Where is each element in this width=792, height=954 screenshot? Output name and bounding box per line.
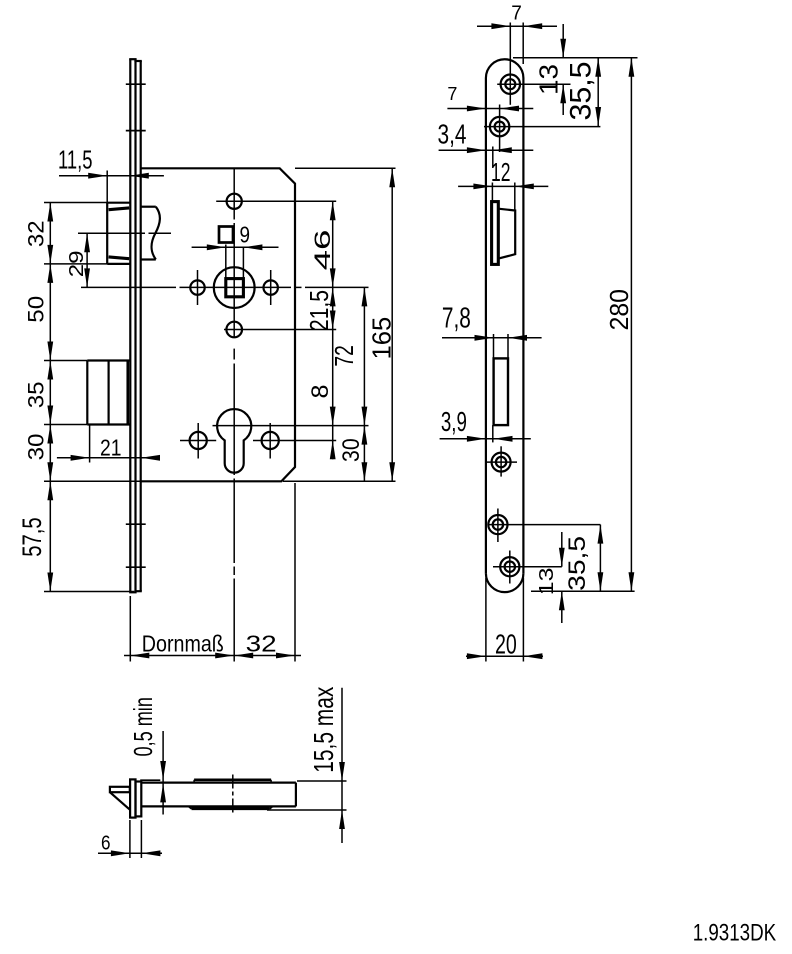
faceplate section rear layer bbox=[136, 782, 142, 817]
screw hole 1 outer bbox=[501, 75, 520, 94]
faceplate front plate top cap bbox=[129, 58, 136, 60]
case section bottom boss bbox=[192, 807, 270, 810]
case section reference lip bbox=[140, 779, 160, 781]
dimension 15,5 max line bbox=[341, 688, 343, 843]
screw hole tick on faceplate edge 2 bbox=[126, 130, 146, 132]
dimension 3,4 arrows bbox=[467, 147, 486, 153]
svg-text:165: 165 bbox=[366, 317, 396, 360]
dimension 35,5 bottom arrows bbox=[598, 525, 604, 544]
deadbolt front face thick line bbox=[126, 362, 129, 424]
extension line plate top right bbox=[513, 57, 638, 59]
dimension column 72/30 line bbox=[363, 287, 365, 481]
dimension 11,5 left arrow bbox=[88, 173, 107, 179]
extension line deadbolt window left upper bbox=[493, 334, 495, 358]
extension line case bottom left bbox=[44, 480, 141, 482]
follower side hole right bbox=[264, 280, 278, 294]
square symbol bbox=[219, 227, 233, 243]
svg-text:3,9: 3,9 bbox=[441, 406, 467, 437]
hole below follower bbox=[226, 322, 242, 338]
screw hole tick on faceplate edge 1 bbox=[126, 83, 146, 85]
dimension 7,8 arrows bbox=[475, 335, 494, 341]
dimension 11,5 line bbox=[59, 175, 164, 177]
svg-text:72: 72 bbox=[329, 345, 359, 366]
latch section bar bbox=[110, 787, 130, 792]
svg-text:13: 13 bbox=[534, 64, 564, 95]
dimension 3,4 line bbox=[439, 149, 534, 151]
screw hole 5 horizontal mark bbox=[493, 566, 562, 568]
dimension 46 arrows bbox=[330, 201, 336, 220]
screw hole 5 outer bbox=[500, 557, 519, 576]
dimension 20 line bbox=[466, 655, 543, 657]
extension line boss bottom bbox=[267, 809, 347, 811]
extension line plate bottom right bbox=[531, 590, 635, 592]
dimension 7 top arrows bbox=[491, 23, 510, 29]
extension line latch tip bbox=[106, 171, 108, 203]
screw hole 1 horizontal mark bbox=[497, 83, 570, 85]
dimension Dornmass line bbox=[124, 655, 301, 657]
dimension 29 line bbox=[86, 233, 88, 287]
screw hole 2 vertical mark bbox=[499, 105, 501, 153]
latch bevel in window bbox=[498, 209, 515, 259]
dimension 32 arrows bbox=[47, 203, 53, 222]
deadbolt window bbox=[494, 358, 508, 425]
latch centerline bbox=[78, 232, 145, 234]
screw hole 3 outer bbox=[492, 453, 511, 472]
latch front face in window bbox=[492, 202, 499, 265]
faceplate edge view rear plate line / case left edge bbox=[140, 61, 142, 591]
dimension 20 arrows bbox=[467, 653, 486, 659]
section centerline bbox=[232, 775, 234, 814]
cylinder side hole left horizontal mark bbox=[180, 440, 216, 442]
extension line top hole bbox=[216, 200, 336, 202]
dimension 9 line bbox=[192, 246, 279, 248]
extension line latch bottom bbox=[44, 263, 107, 265]
screw hole 4 outer bbox=[488, 515, 507, 534]
svg-text:30: 30 bbox=[24, 434, 49, 461]
screw hole 4 horizontal mark bbox=[488, 524, 600, 526]
dimension 12 line bbox=[458, 185, 548, 187]
svg-text:15,5 max: 15,5 max bbox=[308, 687, 339, 773]
follower side hole right vertical mark bbox=[270, 270, 272, 305]
dimension 9 left arrow bbox=[207, 244, 226, 250]
dimension 7 top line bbox=[477, 25, 557, 27]
dimension 8 arrows bbox=[330, 407, 336, 426]
faceplate front plate bottom cap bbox=[129, 591, 136, 593]
dimension 30 right arrows bbox=[362, 426, 368, 445]
extension line deadbolt window right upper bbox=[507, 334, 509, 358]
faceplate rear plate top cap bbox=[134, 60, 141, 62]
extension line plate left low bbox=[485, 578, 487, 662]
extension line latch window left upper bbox=[492, 147, 494, 169]
dimension 35,5 bottom line bbox=[599, 525, 601, 592]
dimension 6 arrows bbox=[111, 850, 130, 856]
case section right edge bbox=[295, 783, 297, 807]
svg-text:1.9313DK: 1.9313DK bbox=[693, 919, 777, 946]
dimension 6 line bbox=[98, 852, 162, 854]
dimension 30 arrows bbox=[47, 425, 53, 444]
dimension 72 arrows bbox=[362, 287, 368, 306]
dimension 13 top line lower bbox=[562, 84, 564, 115]
svg-text:8: 8 bbox=[307, 385, 334, 399]
extension line latch window left bbox=[491, 183, 493, 202]
svg-text:7: 7 bbox=[511, 2, 522, 24]
latch bolt head bottom edge bbox=[107, 263, 130, 265]
faceplate top arc bbox=[486, 59, 524, 78]
dimension 35,5 top line bbox=[597, 58, 599, 126]
dimension 29 arrows bbox=[84, 233, 90, 252]
extension line square left bbox=[225, 245, 227, 279]
faceplate bottom arc bbox=[486, 573, 524, 592]
dimension 15,5 max arrows bbox=[339, 762, 345, 781]
extension line faceplate bottom bbox=[44, 591, 134, 593]
svg-text:11,5: 11,5 bbox=[58, 145, 93, 175]
svg-text:7,8: 7,8 bbox=[442, 303, 471, 335]
dimension 35 arrows bbox=[47, 361, 53, 380]
dimension 21,5 arrows bbox=[330, 287, 336, 306]
case section bottom boss right jog bbox=[270, 806, 273, 808]
dimension 21 arrows bbox=[71, 455, 90, 461]
horizontal centerline through follower bbox=[81, 286, 176, 288]
svg-text:21,5: 21,5 bbox=[304, 290, 334, 331]
extension line latch top bbox=[44, 202, 107, 204]
svg-text:46: 46 bbox=[310, 230, 335, 271]
svg-text:35,5: 35,5 bbox=[564, 536, 591, 591]
dimension 280 arrows bbox=[629, 58, 635, 77]
extension line square right bbox=[242, 247, 244, 278]
case section top edge bbox=[141, 781, 296, 783]
top fixing hole bbox=[227, 194, 242, 209]
case section bottom boss left jog bbox=[189, 806, 192, 808]
faceplate rear plate bottom cap bbox=[134, 590, 141, 592]
screw hole 2 inner bbox=[495, 122, 505, 132]
svg-text:21: 21 bbox=[100, 435, 122, 461]
dimension 57,5 arrows bbox=[47, 481, 53, 500]
profile cylinder hole bbox=[217, 409, 251, 473]
faceplate left edge bbox=[485, 78, 487, 573]
dimension 7 second line bbox=[447, 108, 533, 110]
latch section bevel diagonal bbox=[110, 793, 130, 810]
extension line deadbolt top bbox=[44, 360, 87, 362]
case section top boss right jog bbox=[270, 780, 272, 783]
dimension 12 arrows bbox=[473, 184, 492, 190]
svg-text:12: 12 bbox=[491, 157, 511, 187]
latch bolt tail top edge bbox=[141, 206, 156, 208]
svg-text:32: 32 bbox=[24, 220, 49, 247]
dimension 3,9 arrows bbox=[467, 436, 486, 442]
extension line case right low bbox=[294, 483, 296, 662]
dimension 13 bottom line lower bbox=[561, 591, 563, 623]
case section top boss bbox=[194, 778, 271, 781]
screw hole 4 inner bbox=[493, 519, 503, 529]
faceplate edge view front plate line bbox=[129, 59, 131, 592]
extension line deadbolt window left lower bbox=[492, 425, 494, 442]
screw hole tick on faceplate edge 4 bbox=[126, 566, 146, 568]
screw hole 5 vertical mark bbox=[509, 551, 511, 584]
cylinder side hole right bbox=[262, 432, 279, 449]
follower side hole left vertical mark bbox=[197, 270, 199, 305]
cylinder side hole right vertical mark bbox=[269, 423, 271, 459]
dimension 7,8 line bbox=[442, 337, 542, 339]
svg-text:32: 32 bbox=[246, 631, 277, 657]
extension line plate right top bbox=[522, 23, 524, 65]
extension line case bottom right bbox=[283, 480, 396, 482]
dimension 11,5 right arrow bbox=[130, 173, 149, 179]
latch bolt tail break line bbox=[151, 207, 159, 260]
dimension 0,5 min line bbox=[162, 731, 164, 815]
dimension 13 top arrows bbox=[560, 39, 566, 58]
dimension Dornmass arrows bbox=[130, 653, 149, 659]
svg-text:30: 30 bbox=[338, 438, 365, 462]
dimension 35,5 top arrows bbox=[595, 58, 601, 77]
svg-text:35,5: 35,5 bbox=[565, 62, 598, 121]
svg-text:0,5 min: 0,5 min bbox=[128, 697, 158, 756]
latch bolt bevel bottom thick line bbox=[109, 257, 130, 259]
deadbolt bottom edge bbox=[87, 423, 130, 425]
dimension column 46/21,5/8 line bbox=[332, 201, 334, 459]
faceplate edge view middle plate line bbox=[134, 59, 136, 592]
svg-text:29: 29 bbox=[66, 250, 88, 277]
dimension 13 top line upper bbox=[562, 24, 564, 58]
screw hole tick on faceplate edge 3 bbox=[126, 523, 146, 525]
svg-text:7: 7 bbox=[447, 84, 457, 104]
dimension 13 bottom arrows bbox=[559, 548, 565, 567]
latch bolt head left edge bbox=[106, 203, 108, 264]
screw hole 3 inner bbox=[496, 457, 506, 467]
extension line faceplate front face bbox=[129, 596, 131, 662]
case section bottom edge bbox=[141, 805, 296, 807]
svg-text:35: 35 bbox=[24, 381, 49, 408]
screw hole 3 vertical mark bbox=[500, 446, 502, 476]
extension line plate section left bbox=[129, 820, 131, 858]
svg-text:50: 50 bbox=[24, 296, 49, 323]
screw hole 3 horizontal mark bbox=[486, 461, 517, 463]
dimension 280 line bbox=[630, 58, 632, 592]
screw hole 2 outer bbox=[490, 117, 509, 136]
follower side hole left bbox=[190, 280, 204, 294]
extension line case top right bbox=[295, 167, 396, 169]
extension line hole below follower bbox=[224, 329, 336, 331]
latch bolt bevel top thick line bbox=[109, 208, 130, 210]
lock case outline bbox=[141, 168, 295, 481]
faceplate section front layer bbox=[130, 779, 135, 817]
cylinder side hole right horizontal mark bbox=[253, 440, 336, 442]
deadbolt inner line bbox=[107, 361, 109, 425]
svg-text:280: 280 bbox=[604, 289, 634, 331]
svg-text:13: 13 bbox=[536, 568, 558, 596]
dimension 0,5 min arrows bbox=[160, 761, 166, 780]
svg-text:20: 20 bbox=[495, 628, 517, 659]
extension line plate section right bbox=[140, 820, 142, 858]
screw hole 2 horizontal mark bbox=[484, 126, 600, 128]
latch bolt tail bottom edge bbox=[141, 258, 156, 260]
dimension 9 right arrow bbox=[243, 244, 262, 250]
screw hole 5 inner bbox=[505, 562, 515, 572]
deadbolt top edge bbox=[87, 359, 130, 361]
svg-text:Dornmaß: Dornmaß bbox=[142, 631, 224, 657]
dimension 7 second arrows bbox=[467, 106, 486, 112]
follower square spindle hole bbox=[226, 279, 244, 297]
cylinder side hole left vertical mark bbox=[197, 423, 199, 459]
cylinder centerline extension bbox=[213, 425, 369, 427]
left dimension chain line bbox=[49, 203, 51, 592]
dimension 165 arrows bbox=[389, 168, 395, 187]
vertical centerline of case bbox=[233, 169, 235, 220]
latch bolt head top edge bbox=[107, 202, 130, 204]
extension line case section top bbox=[297, 780, 347, 782]
follower circle bbox=[214, 267, 255, 308]
dimension 3,9 line bbox=[440, 438, 531, 440]
svg-text:57,5: 57,5 bbox=[17, 517, 47, 557]
screw hole 1 inner bbox=[505, 79, 515, 89]
extension line deadbolt bottom bbox=[44, 424, 87, 426]
faceplate right edge bbox=[522, 78, 524, 573]
svg-text:6: 6 bbox=[101, 833, 111, 855]
dimension 21 line bbox=[57, 457, 160, 459]
deadbolt left edge bbox=[86, 361, 88, 425]
dimension 13 bottom line upper bbox=[561, 532, 563, 567]
dimension column 165 line bbox=[391, 168, 393, 481]
extension line plate right low bbox=[522, 578, 524, 662]
dimension 32 bottom arrows bbox=[234, 653, 253, 659]
screw hole 1 vertical mark and extension bbox=[509, 23, 511, 105]
extension line latch window right bbox=[514, 183, 516, 211]
svg-text:9: 9 bbox=[240, 221, 251, 247]
screw hole 4 vertical mark bbox=[497, 509, 499, 543]
case section top boss left jog bbox=[193, 780, 195, 783]
dimension 50 arrows bbox=[47, 264, 53, 283]
svg-text:3,4: 3,4 bbox=[438, 119, 467, 150]
cylinder side hole left bbox=[190, 432, 207, 449]
extension line deadbolt left low bbox=[89, 425, 91, 463]
